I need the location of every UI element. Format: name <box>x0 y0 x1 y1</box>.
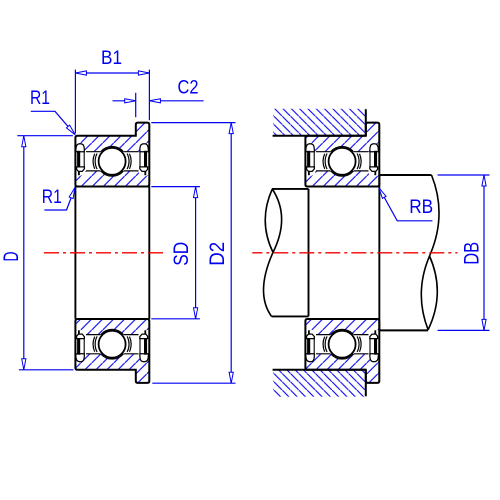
svg-text:SD: SD <box>170 242 193 266</box>
svg-text:DB: DB <box>460 242 483 265</box>
svg-text:B1: B1 <box>101 48 122 69</box>
svg-text:D: D <box>0 252 23 262</box>
svg-text:C2: C2 <box>178 77 199 98</box>
svg-text:R1: R1 <box>42 187 62 208</box>
svg-text:RB: RB <box>409 197 433 218</box>
svg-text:D2: D2 <box>206 242 229 266</box>
svg-text:R1: R1 <box>30 88 50 109</box>
